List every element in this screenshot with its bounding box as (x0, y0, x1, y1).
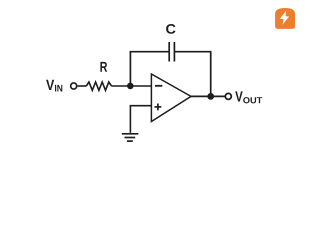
input terminal (71, 83, 77, 89)
label VOUT (235, 91, 262, 103)
output terminal (225, 93, 231, 99)
node B junction dot (207, 93, 214, 100)
label R (100, 62, 107, 72)
wire non-inverting input (130, 106, 151, 133)
resistor R (86, 82, 111, 90)
wire feedback top left (130, 51, 170, 53)
label VIN (46, 80, 62, 92)
ground (122, 134, 139, 141)
label C (166, 24, 175, 34)
node A junction dot (127, 83, 134, 90)
wire resistor to op-amp inverting input (112, 85, 152, 87)
wire feedback right vertical (210, 52, 212, 97)
capacitor C (169, 42, 174, 62)
wire input (78, 85, 87, 87)
wire output (190, 95, 225, 97)
op-amp U1 (151, 74, 191, 122)
wire feedback top right (174, 51, 211, 53)
wire feedback left vertical (129, 52, 131, 86)
logo: orange bread slice with lightning bolt (275, 8, 295, 29)
